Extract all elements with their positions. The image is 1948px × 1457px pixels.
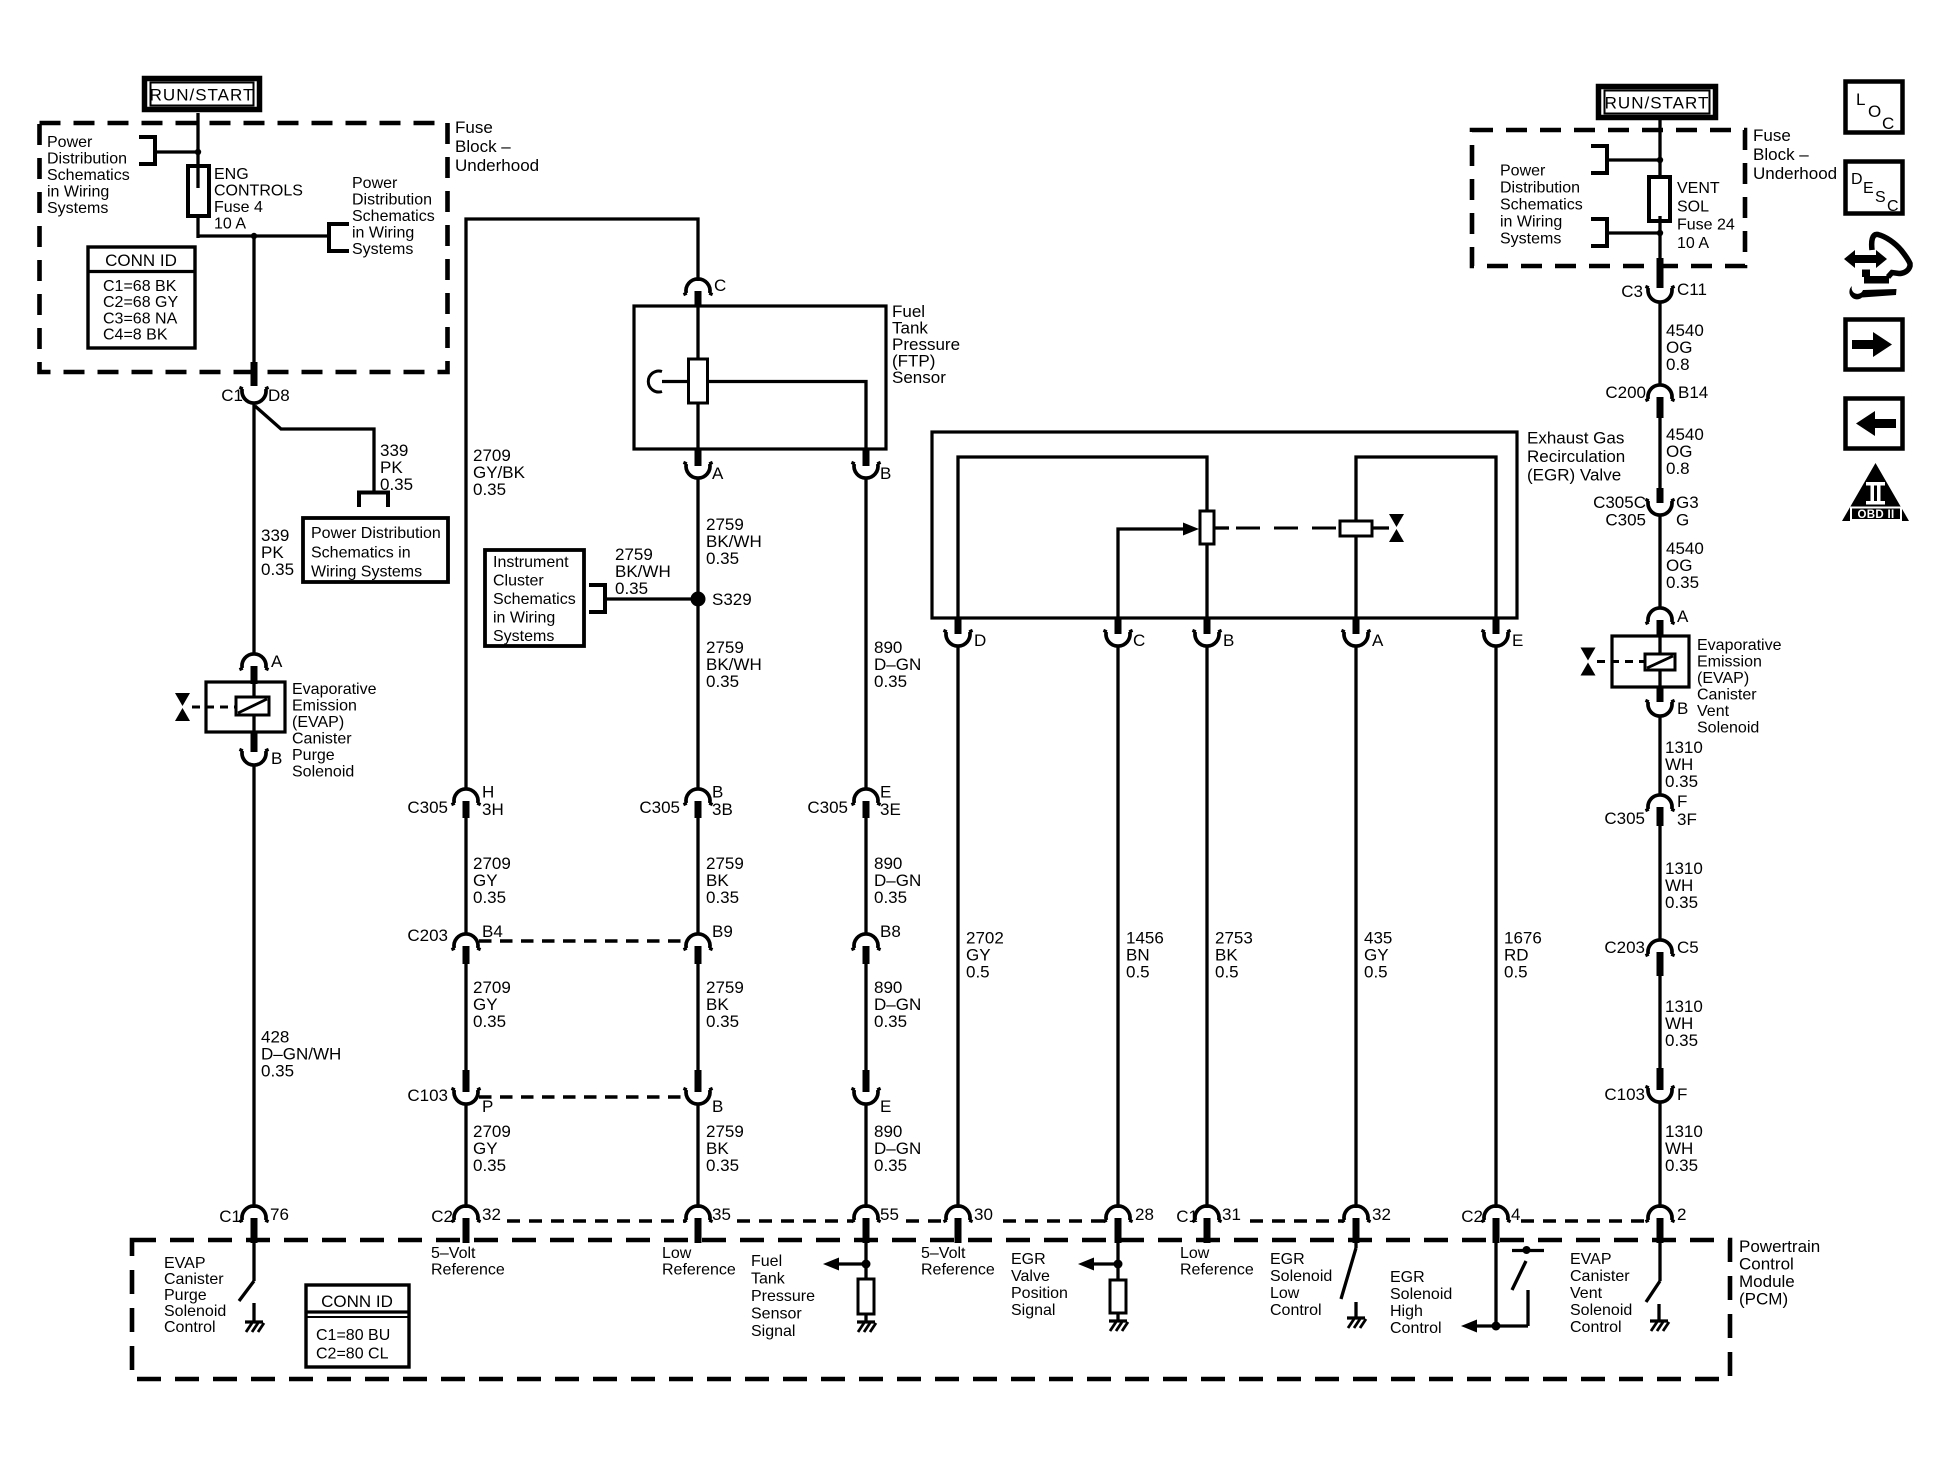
- label: 339 PK 0.35 (main wire): [261, 526, 294, 579]
- connector pin D (EGR): [943, 618, 986, 650]
- connector C305C/C305 G3/G: [1593, 488, 1699, 530]
- label: 339 PK 0.35 (branch): [380, 441, 413, 494]
- label: 1456 BN 0.5: [1126, 929, 1164, 982]
- label: Power Distribution Schematics in Wiring Systems (fuse box right): [352, 175, 435, 258]
- pin 28 internal: arrow, resistor, ground: [1078, 1243, 1128, 1331]
- svg-text:H: H: [482, 783, 494, 802]
- label: 2709 GY 0.35 (row 2): [473, 978, 511, 1031]
- label: Fuel Tank Pressure Sensor Signal (pin 55): [751, 1253, 815, 1340]
- svg-text:C5: C5: [1677, 938, 1699, 957]
- svg-text:C: C: [714, 276, 726, 295]
- connector pin 28 (PCM): [1103, 1205, 1154, 1243]
- svg-text:A: A: [1677, 607, 1689, 626]
- connector C200 / B14: [1605, 383, 1708, 418]
- svg-text:C305: C305: [1604, 809, 1645, 828]
- wire 2759 BK (C103 to PCM 35): [696, 1104, 699, 1208]
- svg-text:C305: C305: [1605, 511, 1646, 530]
- connector pin A (FTP): [683, 449, 724, 483]
- svg-text:F: F: [1677, 792, 1687, 811]
- connector C2 / 32 (PCM): [431, 1205, 501, 1243]
- EGR solenoid coil (A-E): [1340, 457, 1496, 618]
- pin 55 internal: arrow, pulldown resistor, ground: [823, 1243, 876, 1332]
- icon: LOC box: [1846, 82, 1903, 134]
- connector pin A (vent solenoid): [1645, 607, 1689, 637]
- svg-text:B: B: [1223, 631, 1234, 650]
- label: 2759 BK/WH 0.35 (above S329): [706, 515, 762, 568]
- wire 2753 BK (EGR B to PCM 31): [1205, 646, 1208, 1208]
- label: Powertrain Control Module (PCM): [1739, 1237, 1820, 1309]
- svg-text:C305: C305: [807, 798, 848, 817]
- connector pin C (EGR): [1103, 618, 1145, 650]
- svg-text:C2: C2: [431, 1207, 453, 1226]
- svg-text:76: 76: [270, 1205, 289, 1224]
- wire 2759 BK (C305 to C203): [696, 818, 699, 934]
- label: 2753 BK 0.5: [1215, 929, 1253, 982]
- svg-text:S329: S329: [712, 590, 752, 609]
- label: 2759 BK 0.35 (row 1): [706, 854, 744, 907]
- wire 4540 OG (C305 to vent solenoid A): [1658, 515, 1661, 608]
- junction dot at bracket tap: [195, 149, 201, 155]
- boxed label: Instrument Cluster Schematics in Wiring Systems: [485, 550, 584, 646]
- connector C203 / C5: [1604, 938, 1698, 976]
- label: 4540 OG 0.35: [1666, 539, 1704, 592]
- wire 2709 GY/BK: C305-3H up and over to FTP pin C: [466, 219, 698, 789]
- connector pin E (EGR): [1481, 618, 1523, 650]
- connector C203 B8: [851, 922, 900, 964]
- label: 890 D-GN 0.35 (top): [874, 638, 921, 691]
- icon: DESC box: [1846, 162, 1903, 216]
- svg-text:A: A: [271, 652, 283, 671]
- svg-text:RUN/START: RUN/START: [1605, 94, 1710, 113]
- wire 2759 BK/WH: FTP A down to S329: [696, 478, 699, 601]
- wire 2759 BK (C203 to C103): [696, 964, 699, 1070]
- wire 428 D-GN/WH to PCM pin 76: [252, 765, 255, 1208]
- fuse VENT SOL Fuse 24: [1649, 177, 1670, 221]
- connector pin A (EGR): [1341, 618, 1384, 650]
- svg-text:C200: C200: [1605, 383, 1646, 402]
- EGR wiper arrow (pin C): [1118, 523, 1199, 619]
- wire 890 D-GN (C103 to PCM 55): [864, 1104, 867, 1208]
- connector pin B (purge solenoid): [239, 732, 282, 768]
- off-page bracket upper (right fuse box): [1591, 144, 1663, 175]
- wire: fuse to branch and bracket: [198, 236, 329, 364]
- svg-text:A: A: [712, 464, 724, 483]
- svg-text:C1=68 BKC2=68 GYC3=68 NAC4=8 B: C1=68 BKC2=68 GYC3=68 NAC4=8 BK: [103, 278, 178, 344]
- connector C305 F/3F: [1604, 792, 1696, 829]
- label: Fuse Block - Underhood (left): [455, 118, 539, 175]
- svg-text:3E: 3E: [880, 800, 901, 819]
- svg-text:C203: C203: [407, 926, 448, 945]
- FTP transducer and internal wiring: [648, 307, 866, 449]
- connector pin 30 (PCM): [943, 1205, 993, 1243]
- svg-text:B8: B8: [880, 922, 901, 941]
- svg-text:31: 31: [1222, 1205, 1241, 1224]
- svg-text:C1=80 BUC2=80 CL: C1=80 BUC2=80 CL: [316, 1327, 390, 1363]
- connector C1 / 31 (PCM): [1176, 1205, 1241, 1243]
- svg-text:4: 4: [1511, 1205, 1520, 1224]
- svg-text:C103: C103: [407, 1086, 448, 1105]
- svg-text:P: P: [482, 1097, 493, 1116]
- label: Low Reference (pin 31): [1180, 1245, 1254, 1279]
- driver switch at pin 76 with ground: [239, 1238, 264, 1332]
- label: 2759 BK/WH 0.35 (below S329): [706, 638, 762, 691]
- fuse block underhood dashed box (left): [40, 123, 448, 372]
- splice S329: [691, 590, 752, 609]
- wire 2709 GY (C305 to C203): [464, 818, 467, 934]
- wire: RUN/START down through fuse box (right): [1658, 118, 1661, 262]
- svg-text:RUN/START: RUN/START: [150, 86, 255, 105]
- connector C2 / 4 (PCM): [1461, 1205, 1520, 1243]
- driver switch at pin 32 with ground: [1341, 1243, 1366, 1328]
- fuse block underhood dashed box (right): [1472, 130, 1745, 266]
- svg-text:B: B: [712, 783, 723, 802]
- connector C203 B9: [683, 922, 732, 964]
- label: 1310 WH 0.35 (row 4): [1665, 1122, 1703, 1175]
- icon: vehicle navigation (double arrow, outline, wrench): [1844, 234, 1910, 299]
- label: 2759 BK 0.35 (row 2): [706, 978, 744, 1031]
- svg-text:B: B: [1677, 699, 1688, 718]
- connector C305 H/3H: [407, 783, 503, 820]
- svg-text:B: B: [712, 1097, 723, 1116]
- wire 1456 BN (EGR C to PCM 28): [1116, 646, 1119, 1208]
- CONN ID table (PCM): [306, 1285, 409, 1367]
- svg-text:B: B: [880, 464, 891, 483]
- connector C103 / F: [1604, 1068, 1687, 1104]
- svg-text:CONN ID: CONN ID: [105, 251, 177, 270]
- EVAP canister purge solenoid: [175, 682, 285, 732]
- label: EVAP Canister Purge Solenoid Control: [164, 1255, 226, 1336]
- off-page bracket to Power Distribution (fuse box right): [329, 222, 349, 253]
- label: 2759 BK/WH 0.35 (bracket): [615, 545, 671, 598]
- wire 2709 GY (C203 to C103): [464, 964, 467, 1070]
- label: EGR Solenoid High Control: [1390, 1269, 1452, 1337]
- svg-text:D: D: [974, 631, 986, 650]
- off-page bracket lower (right fuse box): [1591, 217, 1663, 248]
- label: 890 D-GN 0.35 (row 2): [874, 978, 921, 1031]
- connector pin 32 EGR-low (PCM): [1341, 1205, 1391, 1243]
- svg-text:A: A: [1372, 631, 1384, 650]
- connector pin 35 (PCM): [683, 1205, 731, 1243]
- label: 890 D-GN 0.35 (row 1): [874, 854, 921, 907]
- wire 1310 WH (C305 to C203): [1658, 826, 1661, 940]
- connector C305 E/3E: [807, 783, 900, 820]
- connector C103 E: [851, 1070, 891, 1116]
- wire 890 D-GN: FTP B down to C305: [864, 478, 867, 789]
- svg-text:E: E: [1512, 631, 1523, 650]
- svg-text:C: C: [1133, 631, 1145, 650]
- connector C1 / D8: [221, 362, 289, 405]
- label box RUN/START (left): [145, 79, 260, 110]
- label: 435 GY 0.5: [1364, 929, 1392, 982]
- wire 1676 RD (EGR E to PCM 4): [1494, 646, 1497, 1208]
- fuse ENG CONTROLS Fuse 4: [188, 166, 209, 238]
- svg-text:C1: C1: [1176, 1207, 1198, 1226]
- wire 4540 OG (C200 to C305C): [1658, 418, 1661, 488]
- EGR valve pintle symbol: [1389, 514, 1404, 542]
- wire branch 339 PK to power distribution box: [255, 406, 390, 507]
- svg-text:35: 35: [712, 1205, 731, 1224]
- svg-text:55: 55: [880, 1205, 899, 1224]
- wire 1310 WH (C203 to C103): [1658, 976, 1661, 1068]
- EGR potentiometer branch (D-B): [958, 457, 1214, 618]
- EVAP canister vent solenoid: [1581, 636, 1690, 687]
- wire 2759 BK/WH: S329 down to C305: [696, 601, 699, 789]
- wire 4540 OG (C3 to C200): [1658, 302, 1661, 385]
- connector C3 / C11: [1621, 258, 1707, 302]
- wire 890 D-GN (C203 to C103): [864, 964, 867, 1070]
- label: Power Distribution Schematics in Wiring Systems (fuse box left): [47, 134, 130, 217]
- label: 4540 OG 0.8 (row 2): [1666, 425, 1704, 478]
- label: Fuel Tank Pressure (FTP) Sensor: [892, 302, 960, 387]
- label: Power Distribution Schematics in Wiring Systems (right fuse box): [1500, 163, 1583, 248]
- connector C103 P with dashed connector line: [407, 1070, 686, 1116]
- label: Evaporative Emission (EVAP) Canister Purge Solenoid: [292, 681, 377, 781]
- icon: left arrow box: [1846, 399, 1903, 449]
- svg-text:C305: C305: [639, 798, 680, 817]
- label: 2759 BK 0.35 (row 3): [706, 1122, 744, 1175]
- CONN ID table (fuse block): [88, 247, 195, 348]
- svg-text:B: B: [271, 749, 282, 768]
- svg-text:C1: C1: [219, 1207, 241, 1226]
- label: Low Reference (pin 35): [662, 1245, 736, 1279]
- svg-text:G: G: [1676, 511, 1689, 530]
- svg-text:C305: C305: [407, 798, 448, 817]
- svg-text:OBD II: OBD II: [1858, 509, 1895, 521]
- EGR valve box: [932, 432, 1517, 618]
- svg-text:30: 30: [974, 1205, 993, 1224]
- svg-text:C103: C103: [1604, 1085, 1645, 1104]
- label: 2709 GY/BK 0.35: [473, 446, 526, 499]
- svg-text:28: 28: [1135, 1205, 1154, 1224]
- wire 890 D-GN (C305 to C203): [864, 818, 867, 934]
- label: ENG CONTROLS Fuse 4 10 A: [214, 166, 303, 233]
- svg-text:B9: B9: [712, 922, 733, 941]
- wire 435 GY (EGR A to PCM 32): [1354, 646, 1357, 1208]
- label: 428 D-GN/WH 0.35: [261, 1028, 341, 1081]
- connector C305 B/3B: [639, 783, 732, 820]
- connector pin A (purge solenoid): [239, 652, 283, 684]
- svg-text:D8: D8: [268, 386, 290, 405]
- label: 2702 GY 0.5: [966, 929, 1004, 982]
- label box RUN/START (right): [1599, 87, 1716, 118]
- svg-text:E: E: [880, 783, 891, 802]
- FTP sensor box: [634, 306, 886, 449]
- off-page bracket to Power Distribution (left top): [139, 135, 198, 166]
- label: 4540 OG 0.8 (row 1): [1666, 321, 1704, 374]
- svg-text:C11: C11: [1677, 280, 1707, 299]
- label: 1676 RD 0.5: [1504, 929, 1542, 982]
- pin 4 internal: high-side driver switch and output arrow: [1461, 1243, 1544, 1333]
- svg-text:CONN ID: CONN ID: [321, 1292, 393, 1311]
- label: EGR Valve Position Signal (pin 28): [1011, 1251, 1068, 1319]
- svg-text:C3: C3: [1621, 282, 1643, 301]
- label: 5-Volt Reference (pin 32): [431, 1245, 505, 1279]
- svg-text:G3: G3: [1676, 493, 1699, 512]
- label: EVAP Canister Vent Solenoid Control: [1570, 1251, 1632, 1336]
- connector pin 2 (PCM): [1645, 1205, 1686, 1243]
- connector pin B (vent solenoid): [1645, 687, 1688, 718]
- svg-text:F: F: [1677, 1085, 1687, 1104]
- svg-text:C2: C2: [1461, 1207, 1483, 1226]
- connector pin B (EGR): [1192, 618, 1234, 650]
- PCM dashed box: [132, 1240, 1730, 1379]
- svg-text:C203: C203: [1604, 938, 1645, 957]
- driver switch at pin 2 with ground: [1646, 1243, 1669, 1331]
- svg-text:3F: 3F: [1677, 810, 1697, 829]
- svg-text:B14: B14: [1678, 383, 1708, 402]
- label: Exhaust Gas Recirculation (EGR) Valve: [1527, 429, 1625, 485]
- svg-text:C1: C1: [221, 386, 243, 405]
- label: 2709 GY 0.35 (row 3): [473, 1122, 511, 1175]
- label: 1310 WH 0.35 (row 3): [1665, 997, 1703, 1050]
- svg-text:32: 32: [482, 1205, 501, 1224]
- off-page bracket to instrument cluster: [589, 583, 691, 614]
- wire: RUN/START down to fuse: [196, 113, 199, 188]
- svg-text:3H: 3H: [482, 800, 504, 819]
- connector pin B (FTP): [851, 449, 891, 483]
- wire 2709 GY (C103 to PCM 32): [464, 1104, 467, 1208]
- label: VENT SOL Fuse 24 10 A: [1677, 180, 1735, 252]
- wire 339 PK: C1/D8 down to solenoid pin A: [252, 403, 255, 655]
- connector C1 / 76 (PCM): [219, 1205, 289, 1243]
- wire 2702 GY (EGR D to PCM 30): [956, 646, 959, 1208]
- svg-text:B4: B4: [482, 922, 503, 941]
- icon: right arrow box: [1846, 320, 1903, 370]
- junction dot on branch: [251, 233, 257, 239]
- boxed label: Power Distribution Schematics in Wiring Systems: [303, 518, 448, 582]
- connector C203 B4 with dashed connector line: [407, 922, 686, 964]
- svg-text:E: E: [880, 1097, 891, 1116]
- wire 1310 WH (C103 to PCM 2): [1658, 1102, 1661, 1208]
- label: Fuse Block - Underhood (right): [1753, 126, 1837, 183]
- label: 2709 GY 0.35 (row 1): [473, 854, 511, 907]
- label: 890 D-GN 0.35 (row 3): [874, 1122, 921, 1175]
- PCM pin row dashed lines: [507, 1219, 1648, 1223]
- svg-text:2: 2: [1677, 1205, 1686, 1224]
- label: 1310 WH 0.35 (row 1): [1665, 738, 1703, 791]
- label: 5-Volt Reference (pin 30): [921, 1245, 995, 1279]
- EGR dashed mechanical link: [1214, 526, 1338, 529]
- connector C103 B: [683, 1070, 723, 1116]
- connector pin 55 (PCM): [851, 1205, 899, 1243]
- label: Evaporative Emission (EVAP) Canister Vent Solenoid: [1697, 637, 1782, 737]
- label: 1310 WH 0.35 (row 2): [1665, 859, 1703, 912]
- wire 1310 WH (B to C305): [1658, 716, 1661, 795]
- svg-text:Exhaust GasRecirculation(EGR): Exhaust GasRecirculation(EGR) Valve: [1527, 429, 1625, 485]
- icon: OBD II warning triangle: [1842, 463, 1909, 521]
- svg-text:32: 32: [1372, 1205, 1391, 1224]
- svg-text:3B: 3B: [712, 800, 733, 819]
- label: EGR Solenoid Low Control: [1270, 1251, 1332, 1319]
- svg-text:C305C: C305C: [1593, 493, 1646, 512]
- connector pin C (FTP sensor): [683, 276, 726, 307]
